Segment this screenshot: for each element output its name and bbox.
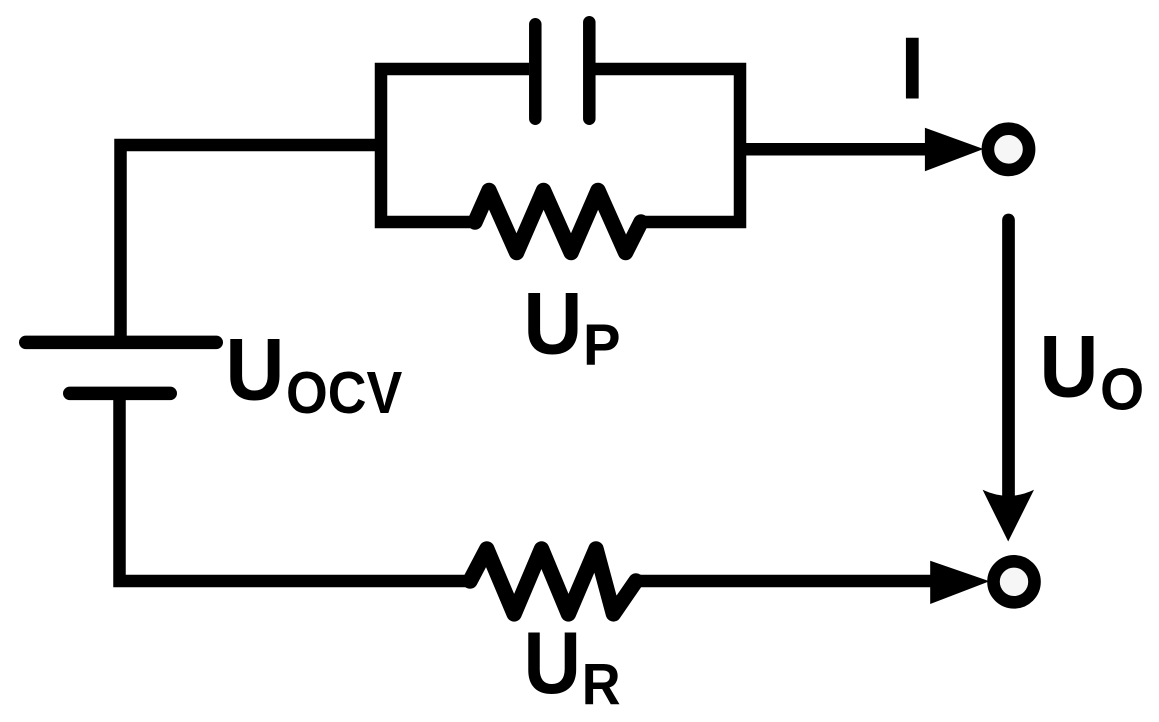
- svg-text:R: R: [582, 652, 621, 717]
- svg-text:O: O: [1100, 358, 1144, 423]
- svg-text:P: P: [583, 313, 621, 378]
- svg-text:U: U: [524, 613, 582, 712]
- svg-text:U: U: [523, 275, 582, 374]
- svg-text:U: U: [1039, 318, 1098, 417]
- svg-text:U: U: [225, 321, 284, 420]
- svg-text:OCV: OCV: [286, 361, 402, 427]
- svg-text:I: I: [900, 18, 925, 117]
